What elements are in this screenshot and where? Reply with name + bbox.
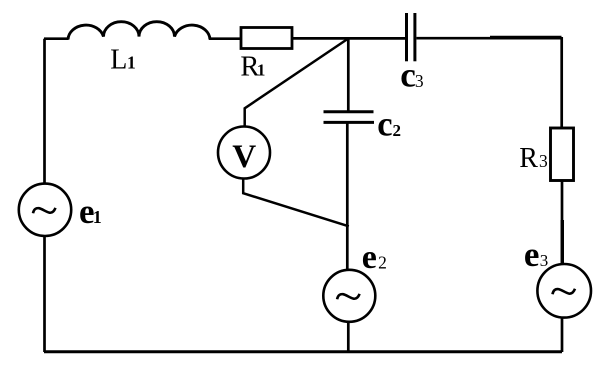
- svg-text:2: 2: [393, 121, 402, 140]
- svg-text:1: 1: [127, 52, 136, 72]
- svg-text:2: 2: [378, 253, 387, 273]
- svg-text:e: e: [524, 235, 540, 274]
- svg-text:e: e: [362, 239, 377, 276]
- svg-text:3: 3: [540, 251, 549, 270]
- svg-text:1: 1: [93, 207, 102, 227]
- svg-text:L: L: [110, 44, 127, 75]
- svg-text:3: 3: [415, 71, 424, 91]
- svg-text:3: 3: [539, 151, 548, 171]
- svg-text:1: 1: [257, 61, 266, 80]
- svg-text:c: c: [400, 55, 416, 94]
- svg-text:R: R: [519, 143, 538, 174]
- svg-text:V: V: [232, 138, 256, 175]
- svg-text:c: c: [377, 105, 392, 143]
